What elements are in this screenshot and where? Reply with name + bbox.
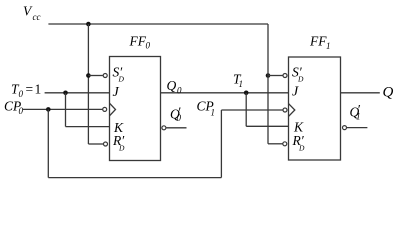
wire CP0 drop: [47, 109, 49, 177]
node CP0 label: [4, 99, 24, 117]
wire Q0' stub: [166, 127, 186, 129]
junction CP0 branch: [46, 107, 51, 112]
wire CP0 to FF0 clock: [23, 108, 103, 110]
svg-text:1: 1: [326, 41, 331, 51]
pin bubble FF0 clock: [103, 107, 107, 111]
svg-text:D: D: [298, 143, 305, 152]
wire Q0 to FF1 J: [161, 92, 289, 94]
wire Q output: [341, 92, 380, 94]
wire Vcc drop to FF1 presets: [267, 24, 269, 144]
svg-text:D: D: [118, 143, 125, 152]
junction T0 branch: [63, 91, 68, 96]
svg-text:=: =: [26, 82, 34, 97]
pin bubble FF1 Q1': [343, 126, 347, 130]
svg-text:0: 0: [177, 86, 182, 96]
wire T0 drop to K: [65, 93, 67, 127]
wire T0 to FF0 J: [45, 92, 110, 94]
pin label FF1 S'D: [292, 65, 304, 84]
clock triangle FF1: [289, 104, 295, 117]
junction FF1 S'D branch: [266, 73, 271, 78]
svg-text:J: J: [292, 85, 299, 100]
svg-text:0: 0: [19, 89, 24, 99]
wire Q1' stub: [347, 127, 368, 129]
wire to FF1 K: [246, 125, 288, 127]
svg-text:Q: Q: [167, 78, 177, 93]
svg-text:cc: cc: [33, 12, 41, 22]
node T1 label: [233, 72, 243, 90]
wire Vcc horizontal rail: [48, 23, 268, 25]
flip-flop FF1 title: [309, 34, 331, 52]
svg-text:J: J: [113, 85, 120, 100]
pin bubble FF1 S'D: [283, 74, 287, 78]
junction T1 branch: [244, 91, 249, 96]
pin bubble FF1 R'D: [283, 142, 287, 146]
node Q1' label: [350, 102, 362, 122]
svg-text:FF: FF: [309, 34, 327, 49]
svg-text:D: D: [118, 75, 125, 84]
junction Vcc branch to FF0: [86, 22, 91, 27]
pin label FF0 R'D: [112, 133, 125, 152]
wire to FF0 S'D: [88, 75, 103, 77]
svg-text:1: 1: [211, 108, 216, 118]
pin bubble FF1 clock: [283, 108, 287, 112]
node T0 = 1 label: [11, 82, 41, 100]
wire CP1 to FF1 clock: [221, 109, 282, 111]
flip-flop FF1 box: [289, 57, 341, 160]
node Q0 label: [167, 78, 183, 96]
wire bottom run: [48, 177, 221, 179]
svg-text:D: D: [297, 75, 304, 84]
node Q0' label: [170, 105, 182, 124]
wire CP1 riser: [220, 110, 222, 178]
flip-flop FF0 box: [110, 57, 161, 161]
node Vcc label: [23, 4, 41, 23]
wire FF1 R'D elbow: [268, 143, 283, 145]
pin label FF1 R'D: [292, 133, 306, 152]
junction FF0 S'D branch: [86, 73, 91, 78]
svg-text:Q: Q: [383, 85, 394, 101]
wire Vcc drop to FF0 presets: [87, 24, 89, 144]
wire T1 drop to FF1 K: [245, 93, 247, 127]
pin bubble FF0 Q0': [162, 126, 166, 130]
flip-flop FF0 title: [129, 34, 151, 51]
svg-text:0: 0: [146, 41, 151, 51]
wire FF0 R'D elbow: [88, 143, 103, 145]
pin bubble FF0 R'D: [104, 142, 108, 146]
pin label FF0 S'D: [113, 65, 125, 84]
svg-text:1: 1: [239, 79, 244, 89]
svg-text:FF: FF: [129, 34, 147, 49]
svg-text:1: 1: [35, 82, 42, 97]
svg-text:0: 0: [19, 106, 24, 116]
wire to FF0 K: [66, 126, 110, 128]
node CP1 label: [197, 99, 216, 118]
pin bubble FF0 S'D: [103, 74, 107, 78]
clock triangle FF0: [110, 103, 116, 116]
wire to FF1 S'D: [268, 75, 283, 77]
